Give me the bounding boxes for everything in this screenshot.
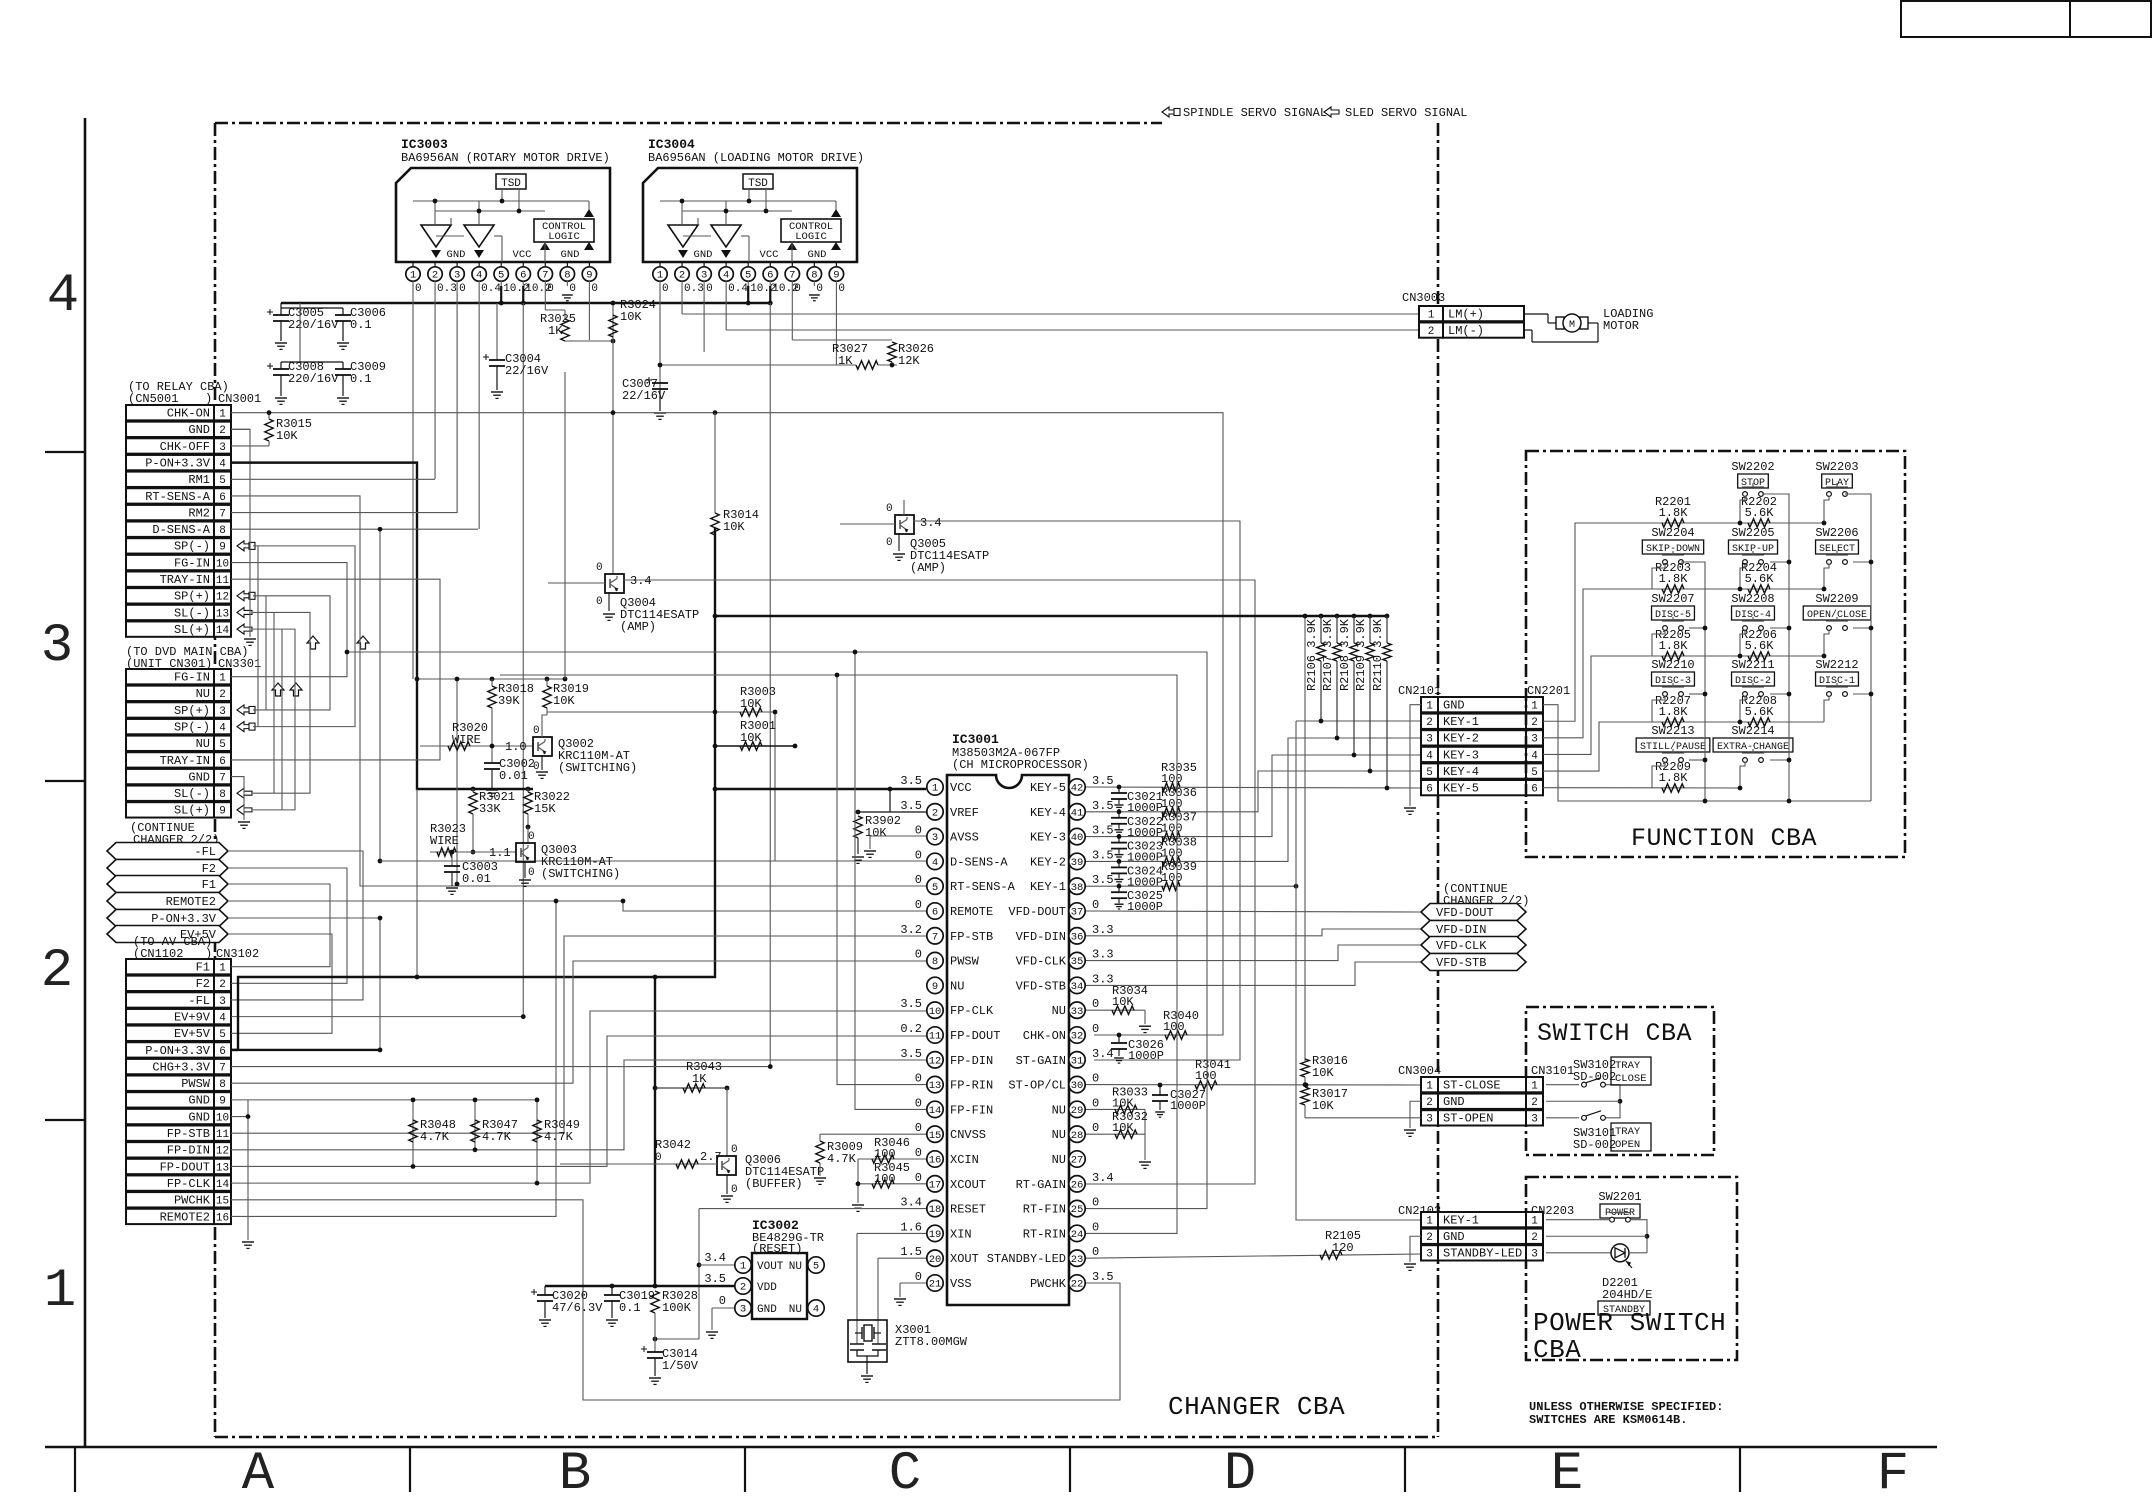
- svg-text:GND: GND: [188, 1094, 210, 1108]
- svg-text:PWSW: PWSW: [181, 1077, 211, 1091]
- svg-text:CLOSE: CLOSE: [1615, 1073, 1647, 1085]
- svg-text:0.1: 0.1: [619, 1301, 641, 1315]
- svg-text:TRAY-IN: TRAY-IN: [160, 754, 210, 768]
- svg-text:SL(+): SL(+): [174, 804, 210, 818]
- svg-text:1/50V: 1/50V: [662, 1359, 699, 1373]
- svg-text:FP-CLK: FP-CLK: [167, 1177, 211, 1191]
- svg-text:5: 5: [813, 1261, 819, 1273]
- svg-text:0: 0: [915, 873, 922, 887]
- svg-text:1000P: 1000P: [1127, 801, 1163, 815]
- svg-text:3.5: 3.5: [1092, 1270, 1114, 1284]
- svg-text:SD-002: SD-002: [1573, 1070, 1616, 1084]
- svg-text:TRAY: TRAY: [1615, 1060, 1641, 1072]
- svg-text:1.8K: 1.8K: [1659, 639, 1689, 653]
- svg-text:WIRE: WIRE: [452, 733, 481, 747]
- svg-text:1000P: 1000P: [1170, 1099, 1206, 1113]
- svg-text:STANDBY: STANDBY: [1603, 1305, 1645, 1316]
- svg-text:3.3: 3.3: [1092, 972, 1114, 986]
- svg-text:NU: NU: [196, 737, 210, 751]
- svg-text:3: 3: [454, 270, 460, 282]
- svg-text:7: 7: [219, 772, 226, 784]
- svg-text:VCC: VCC: [950, 781, 972, 795]
- svg-text:18: 18: [929, 1204, 942, 1216]
- svg-text:3: 3: [41, 616, 73, 677]
- svg-text:0: 0: [886, 537, 893, 549]
- svg-text:FP-DIN: FP-DIN: [950, 1054, 993, 1068]
- svg-text:R3042: R3042: [655, 1138, 691, 1152]
- svg-text:GND: GND: [1443, 1230, 1465, 1244]
- svg-text:1.5: 1.5: [900, 1245, 922, 1259]
- svg-text:SPINDLE SERVO SIGNAL: SPINDLE SERVO SIGNAL: [1183, 106, 1327, 120]
- svg-text:8: 8: [811, 270, 817, 282]
- svg-text:8: 8: [932, 956, 938, 968]
- svg-text:SL(-): SL(-): [174, 606, 210, 620]
- svg-text:14: 14: [216, 1179, 230, 1191]
- svg-text:): ): [205, 392, 212, 406]
- svg-text:2: 2: [1426, 1232, 1433, 1244]
- svg-text:0: 0: [915, 1270, 922, 1284]
- svg-text:0: 0: [1092, 1121, 1099, 1135]
- svg-text:10: 10: [216, 1112, 229, 1124]
- svg-text:8: 8: [219, 1079, 226, 1091]
- svg-text:2: 2: [432, 270, 438, 282]
- svg-text:29: 29: [1071, 1105, 1084, 1117]
- svg-text:SWITCHES ARE KSM0614B.: SWITCHES ARE KSM0614B.: [1529, 1413, 1687, 1427]
- svg-text:100: 100: [874, 1147, 896, 1161]
- svg-text:FP-DIN: FP-DIN: [167, 1144, 210, 1158]
- svg-text:100: 100: [1161, 822, 1183, 836]
- svg-text:0: 0: [1092, 898, 1099, 912]
- svg-text:10K: 10K: [740, 731, 762, 745]
- svg-text:PWCHK: PWCHK: [1030, 1277, 1067, 1291]
- svg-text:41: 41: [1071, 807, 1084, 819]
- svg-text:0: 0: [731, 1184, 738, 1196]
- svg-text:3.5: 3.5: [1092, 873, 1114, 887]
- svg-text:NU: NU: [789, 1304, 802, 1316]
- svg-text:VDD: VDD: [757, 1282, 777, 1294]
- svg-text:0: 0: [915, 824, 922, 838]
- svg-text:F1: F1: [202, 878, 216, 892]
- svg-text:100: 100: [1161, 871, 1183, 885]
- svg-text:(SWITCHING): (SWITCHING): [558, 761, 637, 775]
- svg-text:1: 1: [657, 270, 663, 282]
- svg-text:0: 0: [816, 283, 823, 295]
- svg-text:2.7: 2.7: [700, 1150, 722, 1164]
- svg-text:1.1: 1.1: [489, 846, 511, 860]
- svg-text:9: 9: [833, 270, 839, 282]
- svg-text:NU: NU: [1052, 1103, 1066, 1117]
- svg-text:3: 3: [1426, 1249, 1433, 1261]
- svg-text:0.4: 0.4: [728, 283, 748, 295]
- svg-text:4: 4: [476, 270, 482, 282]
- svg-text:0: 0: [533, 725, 540, 737]
- svg-text:R2107 3.9K: R2107 3.9K: [1321, 618, 1335, 691]
- svg-text:FP-RIN: FP-RIN: [950, 1079, 993, 1093]
- svg-text:0.4: 0.4: [481, 283, 501, 295]
- svg-text:100: 100: [1163, 1020, 1185, 1034]
- svg-text:KEY-3: KEY-3: [1443, 748, 1479, 762]
- svg-text:5: 5: [745, 270, 751, 282]
- svg-text:10K: 10K: [620, 310, 642, 324]
- svg-text:31: 31: [1071, 1055, 1084, 1067]
- svg-text:CN3001: CN3001: [218, 392, 261, 406]
- svg-text:UNLESS OTHERWISE SPECIFIED:: UNLESS OTHERWISE SPECIFIED:: [1529, 1400, 1723, 1414]
- svg-text:9: 9: [219, 806, 226, 818]
- svg-text:R2109 3.9K: R2109 3.9K: [1354, 618, 1368, 691]
- svg-text:GND: GND: [188, 423, 210, 437]
- svg-text:6: 6: [520, 270, 526, 282]
- svg-text:PWCHK: PWCHK: [174, 1194, 211, 1208]
- svg-text:0: 0: [731, 1144, 738, 1156]
- svg-text:3.5: 3.5: [900, 1047, 922, 1061]
- svg-text:EV+5V: EV+5V: [174, 1027, 211, 1041]
- svg-text:ST-OPEN: ST-OPEN: [1443, 1112, 1493, 1126]
- svg-text:1K: 1K: [692, 1072, 707, 1086]
- svg-text:42: 42: [1071, 783, 1084, 795]
- svg-text:12: 12: [929, 1055, 942, 1067]
- svg-text:34: 34: [1071, 981, 1084, 993]
- svg-text:GND: GND: [808, 249, 827, 261]
- svg-text:1: 1: [410, 270, 416, 282]
- svg-text:100: 100: [874, 1172, 896, 1186]
- svg-text:ST-OP/CL: ST-OP/CL: [1008, 1079, 1066, 1093]
- svg-text:B: B: [559, 1444, 591, 1496]
- svg-text:R2106 3.9K: R2106 3.9K: [1305, 618, 1319, 691]
- svg-text:TRAY: TRAY: [1615, 1126, 1641, 1138]
- svg-text:REMOTE: REMOTE: [950, 905, 993, 919]
- svg-text:39: 39: [1071, 857, 1084, 869]
- svg-text:37: 37: [1071, 907, 1084, 919]
- svg-text:6: 6: [767, 270, 773, 282]
- svg-text:GND: GND: [694, 249, 713, 261]
- svg-text:2: 2: [1531, 1097, 1538, 1109]
- svg-text:0: 0: [533, 761, 540, 773]
- svg-text:XCOUT: XCOUT: [950, 1178, 986, 1192]
- svg-text:7: 7: [789, 270, 795, 282]
- svg-text:RESET: RESET: [950, 1203, 986, 1217]
- svg-text:1000P: 1000P: [1127, 826, 1163, 840]
- svg-text:26: 26: [1071, 1179, 1084, 1191]
- svg-text:KEY-5: KEY-5: [1030, 781, 1066, 795]
- svg-text:3.5: 3.5: [1092, 799, 1114, 813]
- svg-text:3: 3: [1426, 1114, 1433, 1126]
- svg-text:CN3003: CN3003: [1402, 291, 1445, 305]
- svg-text:A: A: [242, 1444, 275, 1496]
- svg-text:3.5: 3.5: [900, 774, 922, 788]
- svg-text:5: 5: [219, 1029, 226, 1041]
- svg-text:1: 1: [1426, 1216, 1433, 1228]
- svg-text:3: 3: [1426, 734, 1433, 746]
- svg-text:0: 0: [459, 283, 466, 295]
- svg-text:0.1: 0.1: [350, 318, 372, 332]
- svg-text:120: 120: [1332, 1241, 1354, 1255]
- svg-text:3: 3: [932, 832, 938, 844]
- svg-text:1.8K: 1.8K: [1659, 705, 1689, 719]
- svg-text:VFD-STB: VFD-STB: [1436, 956, 1486, 970]
- svg-text:TRAY-IN: TRAY-IN: [160, 573, 210, 587]
- svg-text:1: 1: [219, 673, 226, 685]
- svg-text:5: 5: [932, 882, 938, 894]
- svg-text:40: 40: [1071, 832, 1084, 844]
- svg-text:2: 2: [1428, 326, 1435, 338]
- svg-text:27: 27: [1071, 1155, 1084, 1167]
- svg-text:6: 6: [219, 756, 226, 768]
- svg-text:IC3003: IC3003: [401, 137, 448, 152]
- svg-text:2: 2: [1531, 1232, 1538, 1244]
- svg-text:2: 2: [679, 270, 685, 282]
- svg-text:8: 8: [219, 789, 226, 801]
- svg-text:1000P: 1000P: [1127, 900, 1163, 914]
- svg-text:3.5: 3.5: [900, 997, 922, 1011]
- svg-text:SP(-): SP(-): [174, 720, 210, 734]
- svg-text:3: 3: [219, 706, 226, 718]
- svg-text:0: 0: [1092, 1245, 1099, 1259]
- svg-text:FP-STB: FP-STB: [167, 1127, 210, 1141]
- svg-text:23: 23: [1071, 1254, 1084, 1266]
- svg-text:(BUFFER): (BUFFER): [745, 1177, 803, 1191]
- svg-text:6: 6: [219, 1046, 226, 1058]
- svg-text:0: 0: [1092, 997, 1099, 1011]
- svg-text:D-SENS-A: D-SENS-A: [152, 523, 210, 537]
- svg-text:E: E: [1551, 1444, 1583, 1496]
- svg-text:204HD/E: 204HD/E: [1602, 1288, 1652, 1302]
- svg-text:6: 6: [1531, 784, 1538, 796]
- svg-text:19: 19: [929, 1229, 942, 1241]
- svg-text:28: 28: [1071, 1130, 1084, 1142]
- svg-text:1000P: 1000P: [1128, 1049, 1164, 1063]
- svg-text:RT-RIN: RT-RIN: [1023, 1227, 1066, 1241]
- svg-text:9: 9: [219, 542, 226, 554]
- svg-text:1: 1: [1531, 1081, 1538, 1093]
- svg-text:P-ON+3.3V: P-ON+3.3V: [145, 456, 211, 470]
- svg-text:SL(+): SL(+): [174, 623, 210, 637]
- svg-text:STANDBY-LED: STANDBY-LED: [987, 1252, 1066, 1266]
- svg-text:100: 100: [1195, 1069, 1217, 1083]
- svg-text:-FL: -FL: [194, 845, 216, 859]
- svg-text:0: 0: [1092, 1022, 1099, 1036]
- svg-text:3.4: 3.4: [1092, 1171, 1114, 1185]
- svg-text:NU: NU: [950, 979, 964, 993]
- svg-text:4: 4: [1426, 750, 1433, 762]
- svg-text:GND: GND: [447, 249, 466, 261]
- svg-text:C: C: [889, 1444, 921, 1496]
- svg-text:RT-GAIN: RT-GAIN: [1016, 1178, 1066, 1192]
- svg-text:VCC: VCC: [760, 249, 779, 261]
- svg-text:CHG+3.3V: CHG+3.3V: [152, 1060, 210, 1074]
- svg-text:CHK-OFF: CHK-OFF: [160, 440, 210, 454]
- svg-text:5.6K: 5.6K: [1745, 639, 1775, 653]
- svg-text:1.8K: 1.8K: [1659, 506, 1689, 520]
- svg-text:39K: 39K: [498, 694, 520, 708]
- svg-text:12: 12: [216, 1146, 229, 1158]
- svg-text:8: 8: [564, 270, 570, 282]
- svg-text:25: 25: [1071, 1204, 1084, 1216]
- svg-text:0.3: 0.3: [684, 283, 704, 295]
- svg-text:15: 15: [216, 1196, 229, 1208]
- svg-text:VCC: VCC: [513, 249, 532, 261]
- svg-text:SW2208: SW2208: [1731, 592, 1774, 606]
- svg-text:VSS: VSS: [950, 1277, 972, 1291]
- svg-text:11: 11: [216, 1129, 230, 1141]
- svg-text:KEY-4: KEY-4: [1030, 806, 1066, 820]
- svg-text:10K: 10K: [553, 694, 575, 708]
- svg-text:220/16V: 220/16V: [288, 372, 339, 386]
- svg-text:0: 0: [915, 1171, 922, 1185]
- svg-text:LOGIC: LOGIC: [795, 231, 827, 243]
- svg-text:GND: GND: [188, 770, 210, 784]
- svg-text:4: 4: [1531, 750, 1538, 762]
- svg-text:VFD-DIN: VFD-DIN: [1016, 930, 1066, 944]
- svg-text:VFD-DOUT: VFD-DOUT: [1436, 906, 1494, 920]
- svg-text:16: 16: [929, 1155, 942, 1167]
- svg-text:RT-FIN: RT-FIN: [1023, 1203, 1066, 1217]
- svg-text:CHANGER CBA: CHANGER CBA: [1168, 1392, 1345, 1422]
- svg-text:3.4: 3.4: [630, 574, 652, 588]
- svg-text:FG-IN: FG-IN: [174, 556, 210, 570]
- svg-text:4: 4: [813, 1304, 819, 1316]
- svg-text:14: 14: [929, 1105, 942, 1117]
- svg-text:SW2211: SW2211: [1731, 658, 1774, 672]
- svg-text:D-SENS-A: D-SENS-A: [950, 855, 1008, 869]
- svg-text:0: 0: [1092, 1220, 1099, 1234]
- svg-text:0: 0: [915, 1072, 922, 1086]
- svg-text:CHK-ON: CHK-ON: [167, 407, 210, 421]
- svg-text:F: F: [1877, 1444, 1909, 1496]
- svg-text:1K: 1K: [838, 354, 853, 368]
- svg-text:1: 1: [1428, 309, 1435, 321]
- svg-text:FP-STB: FP-STB: [950, 930, 993, 944]
- svg-text:VFD-CLK: VFD-CLK: [1436, 939, 1487, 953]
- svg-text:0: 0: [915, 1096, 922, 1110]
- svg-text:3.3: 3.3: [1092, 948, 1114, 962]
- svg-text:ST-GAIN: ST-GAIN: [1016, 1054, 1066, 1068]
- svg-text:CNVSS: CNVSS: [950, 1128, 986, 1142]
- svg-text:NU: NU: [196, 687, 210, 701]
- svg-text:CBA: CBA: [1533, 1335, 1581, 1365]
- svg-text:12K: 12K: [898, 354, 920, 368]
- svg-text:SW2204: SW2204: [1651, 526, 1694, 540]
- svg-text:F2: F2: [202, 862, 216, 876]
- svg-text:R2108 3.9K: R2108 3.9K: [1338, 618, 1352, 691]
- svg-text:NU: NU: [1052, 1153, 1066, 1167]
- svg-text:VFD-DIN: VFD-DIN: [1436, 923, 1486, 937]
- svg-text:13: 13: [216, 608, 229, 620]
- svg-text:REMOTE2: REMOTE2: [166, 895, 216, 909]
- svg-text:21: 21: [929, 1279, 942, 1291]
- svg-text:13: 13: [216, 1162, 229, 1174]
- svg-text:38: 38: [1071, 882, 1084, 894]
- svg-text:100: 100: [1161, 772, 1183, 786]
- svg-text:20: 20: [929, 1254, 942, 1266]
- svg-text:3.4: 3.4: [704, 1251, 726, 1265]
- svg-text:SW2203: SW2203: [1815, 460, 1858, 474]
- svg-text:7: 7: [219, 1062, 226, 1074]
- svg-text:CN2201: CN2201: [1527, 684, 1570, 698]
- svg-text:ZTT8.00MGW: ZTT8.00MGW: [895, 1335, 968, 1349]
- svg-text:3: 3: [701, 270, 707, 282]
- svg-text:5: 5: [1426, 767, 1433, 779]
- svg-text:EV+9V: EV+9V: [174, 1010, 211, 1024]
- svg-text:KEY-1: KEY-1: [1443, 715, 1479, 729]
- svg-text:22/16V: 22/16V: [505, 364, 549, 378]
- svg-text:1: 1: [1426, 701, 1433, 713]
- svg-text:5.6K: 5.6K: [1745, 705, 1775, 719]
- svg-text:0.3: 0.3: [437, 283, 457, 295]
- svg-text:1: 1: [740, 1261, 746, 1273]
- svg-text:4.7K: 4.7K: [544, 1130, 574, 1144]
- svg-text:F2: F2: [196, 977, 210, 991]
- svg-text:SW2210: SW2210: [1651, 658, 1694, 672]
- svg-text:2: 2: [219, 689, 226, 701]
- svg-text:0: 0: [915, 898, 922, 912]
- svg-text:0: 0: [1092, 1072, 1099, 1086]
- svg-text:KEY-2: KEY-2: [1030, 855, 1066, 869]
- svg-text:4: 4: [932, 857, 938, 869]
- svg-text:XCIN: XCIN: [950, 1153, 979, 1167]
- svg-text:FP-DOUT: FP-DOUT: [950, 1029, 1000, 1043]
- svg-text:3.4: 3.4: [920, 516, 942, 530]
- svg-text:1: 1: [932, 783, 938, 795]
- svg-text:11: 11: [216, 575, 230, 587]
- svg-text:R2110 3.9K: R2110 3.9K: [1371, 618, 1385, 691]
- svg-text:LM(+): LM(+): [1448, 307, 1484, 321]
- svg-text:VOUT: VOUT: [757, 1261, 784, 1273]
- svg-text:CHK-ON: CHK-ON: [1023, 1029, 1066, 1043]
- svg-text:0.01: 0.01: [462, 872, 491, 886]
- svg-text:3: 3: [219, 442, 226, 454]
- svg-text:32: 32: [1071, 1031, 1084, 1043]
- svg-text:1.8K: 1.8K: [1659, 572, 1689, 586]
- svg-text:0.2: 0.2: [900, 1022, 922, 1036]
- svg-text:0: 0: [915, 1146, 922, 1160]
- svg-text:10: 10: [216, 558, 229, 570]
- svg-text:SP(-): SP(-): [174, 540, 210, 554]
- svg-text:GND: GND: [561, 249, 580, 261]
- svg-text:(AMP): (AMP): [620, 620, 656, 634]
- svg-text:4: 4: [47, 266, 79, 327]
- svg-text:RM1: RM1: [188, 473, 210, 487]
- svg-text:KEY-3: KEY-3: [1030, 831, 1066, 845]
- svg-text:7: 7: [542, 270, 548, 282]
- svg-text:6: 6: [932, 907, 938, 919]
- svg-text:0: 0: [1092, 1196, 1099, 1210]
- svg-text:3: 3: [740, 1304, 746, 1316]
- svg-text:100: 100: [1161, 846, 1183, 860]
- svg-text:11: 11: [929, 1031, 942, 1043]
- svg-text:7: 7: [219, 508, 226, 520]
- svg-text:IC3001: IC3001: [952, 732, 999, 747]
- svg-text:TSD: TSD: [748, 178, 768, 190]
- svg-text:0: 0: [596, 562, 603, 574]
- svg-text:NU: NU: [1052, 1004, 1066, 1018]
- svg-text:VFD-STB: VFD-STB: [1016, 979, 1066, 993]
- svg-text:FP-FIN: FP-FIN: [950, 1103, 993, 1117]
- svg-text:OPEN: OPEN: [1615, 1139, 1640, 1151]
- svg-text:12: 12: [216, 592, 229, 604]
- svg-text:4: 4: [219, 722, 226, 734]
- svg-text:10K: 10K: [276, 429, 298, 443]
- svg-text:35: 35: [1071, 956, 1084, 968]
- svg-text:9: 9: [586, 270, 592, 282]
- svg-text:XIN: XIN: [950, 1227, 972, 1241]
- svg-text:FUNCTION CBA: FUNCTION CBA: [1631, 824, 1817, 853]
- svg-text:P-ON+3.3V: P-ON+3.3V: [151, 912, 217, 926]
- svg-text:VFD-CLK: VFD-CLK: [1016, 955, 1067, 969]
- svg-text:0: 0: [415, 283, 422, 295]
- svg-text:REMOTE2: REMOTE2: [160, 1210, 210, 1224]
- svg-text:9: 9: [219, 1096, 226, 1108]
- svg-text:2: 2: [41, 941, 73, 1002]
